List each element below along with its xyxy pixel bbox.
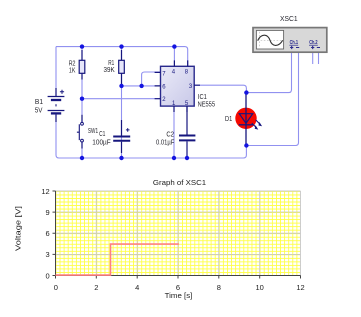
LED D1: [235, 93, 262, 146]
wire: SW1 bottom to ground rail: [81, 142, 83, 158]
wire: branch up to pin 7 of IC1: [142, 72, 161, 86]
wire: node to pin 6 of IC1: [122, 85, 161, 87]
node: SW1 ground: [80, 156, 84, 160]
svg-text:2: 2: [94, 283, 98, 292]
svg-text:NE555: NE555: [198, 100, 215, 109]
junction node dots: [80, 44, 249, 160]
wire: bottom ground rail with corner up to D1 bottom node: [59, 146, 246, 159]
svg-text:10: 10: [256, 283, 264, 292]
wire: C1 branch vertical (node to ground rail): [121, 86, 123, 158]
node: R1 top: [119, 44, 123, 48]
svg-text:0.01µF: 0.01µF: [156, 138, 175, 147]
svg-text:4: 4: [135, 283, 139, 292]
graph major grid lines: [56, 191, 301, 276]
node: C2 ground: [185, 156, 189, 160]
wire: pin 4 drop from top rail: [173, 47, 175, 67]
svg-text:Time [s]: Time [s]: [165, 291, 193, 300]
svg-text:1K: 1K: [69, 66, 76, 75]
wire: battery - down to bottom rail corner: [56, 113, 59, 158]
capacitor C2 (0.01uF) with leads from pin 5 to ground: [179, 106, 195, 158]
wire: oscilloscope Ch.2 - stub: [318, 52, 320, 64]
svg-text:12: 12: [41, 187, 49, 196]
node: pin 4 top: [172, 44, 176, 48]
node: pin 1 ground: [172, 156, 176, 160]
x axis labels: [54, 283, 305, 292]
y axis labels: [41, 187, 49, 280]
wire: output node to oscilloscope Ch.1 +: [246, 52, 291, 92]
wire: pin 1 down to ground rail: [173, 106, 175, 158]
wire: D1 cathode node to oscilloscope Ch.1 -: [246, 52, 298, 145]
node: R2 top: [80, 44, 84, 48]
wire: R1 branch vertical top: [121, 47, 123, 61]
wire: top supply rail with corner down to pin 8: [56, 47, 188, 67]
terminal Ch.1 + -: [290, 46, 299, 49]
svg-text:6: 6: [46, 229, 50, 238]
svg-text:Graph of XSC1: Graph of XSC1: [153, 178, 206, 187]
svg-text:D1: D1: [225, 114, 232, 123]
node: output / D1 anode: [244, 90, 248, 94]
svg-text:XSC1: XSC1: [280, 14, 298, 23]
wire: R2 branch vertical (top rail to SW1): [81, 47, 83, 123]
node: C1 ground: [119, 156, 123, 160]
svg-text:9: 9: [46, 208, 50, 217]
node: pin 6/7 branch: [139, 84, 143, 88]
wire: left vertical from top rail to battery +: [55, 47, 57, 97]
battery B1: [48, 88, 65, 122]
svg-text:12: 12: [296, 283, 304, 292]
trace: Ch.1 voltage step: [56, 244, 179, 275]
svg-text:0: 0: [54, 283, 58, 292]
resistor R1: [119, 50, 125, 86]
op IC1 NE555 timer box: [155, 60, 200, 112]
oscilloscope XSC1: [253, 28, 327, 53]
node: R1 bottom / C1: [119, 84, 123, 88]
svg-text:3: 3: [46, 250, 50, 259]
wire: SW1/R2 node to pin 2 of IC1: [82, 98, 161, 100]
svg-text:100µF: 100µF: [92, 137, 111, 146]
svg-text:SW1: SW1: [88, 126, 98, 135]
wire: oscilloscope Ch.2 + stub: [312, 52, 314, 64]
graph plot area with yellow minor grid: [56, 191, 301, 276]
svg-text:Voltage [V]: Voltage [V]: [14, 206, 23, 251]
capacitor C1 (polarized 100uF): [113, 120, 130, 153]
svg-text:0: 0: [46, 271, 50, 280]
wire: R1 bottom to node at pin6 rail: [121, 73, 123, 86]
node: D1 cathode: [244, 143, 248, 147]
svg-text:39K: 39K: [104, 65, 115, 74]
resistor R2: [79, 50, 85, 80]
switch SW1 (push button): [77, 115, 84, 149]
svg-text:5V: 5V: [35, 105, 43, 114]
svg-text:8: 8: [217, 283, 221, 292]
terminal Ch.2 + -: [311, 46, 320, 49]
node: trigger (pin 2 / SW1): [80, 97, 84, 101]
wire: pin 3 to output node: [194, 85, 246, 92]
graph axes: [53, 191, 301, 279]
